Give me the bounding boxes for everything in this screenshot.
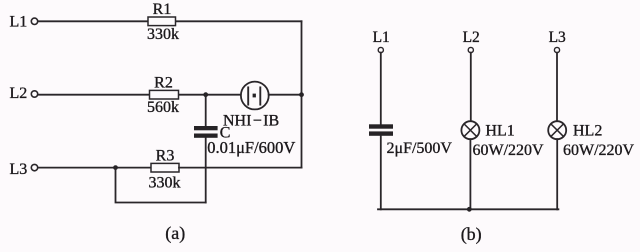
terminal L2 (a) xyxy=(31,91,37,97)
svg-text:L1: L1 xyxy=(373,29,390,46)
resistor R1 xyxy=(148,17,176,26)
svg-text:HL1: HL1 xyxy=(485,123,514,140)
terminal L3 (a) xyxy=(31,164,37,170)
wire right rail xyxy=(301,21,303,167)
wire L3 branch upper xyxy=(556,53,558,122)
svg-text:330k: 330k xyxy=(147,26,179,43)
wire L1 row xyxy=(38,20,302,22)
svg-text:0.01μF/600V: 0.01μF/600V xyxy=(207,138,295,157)
wire R3 to rail xyxy=(179,167,302,169)
lamp HL2 xyxy=(548,121,566,139)
svg-text:L1: L1 xyxy=(10,14,28,31)
wire L1 branch upper xyxy=(380,53,382,125)
terminal L1 (a) xyxy=(31,18,37,24)
wire bottom bus xyxy=(378,208,558,210)
wire L3 branch lower xyxy=(556,139,558,209)
terminal L3 (b) xyxy=(554,47,559,52)
svg-text:L3: L3 xyxy=(549,29,566,46)
svg-text:(a): (a) xyxy=(165,223,185,244)
node junction dot on right rail xyxy=(299,92,304,97)
terminal L2 (b) xyxy=(468,47,473,52)
svg-text:(b): (b) xyxy=(461,224,482,245)
node junction dot on bus xyxy=(467,207,472,212)
svg-text:R2: R2 xyxy=(154,74,173,91)
terminal L1 (b) xyxy=(378,47,383,52)
wire bypass loop xyxy=(116,168,206,203)
wire lamp right to rail xyxy=(269,94,302,96)
capacitor C plates xyxy=(194,126,218,138)
svg-text:L2: L2 xyxy=(10,85,28,102)
node junction dot at R2 / capacitor branch xyxy=(203,92,208,97)
wire capacitor branch upper xyxy=(205,95,207,126)
wire L2 branch lower xyxy=(469,139,471,209)
svg-text:60W/220V: 60W/220V xyxy=(473,142,545,159)
neon lamp U1 NHI-1B xyxy=(241,82,269,110)
svg-text:L3: L3 xyxy=(10,161,28,178)
wire L2 branch upper xyxy=(470,53,472,122)
wire capacitor branch lower xyxy=(205,138,207,203)
svg-text:L2: L2 xyxy=(463,29,480,46)
svg-text:2μF/500V: 2μF/500V xyxy=(387,140,453,157)
svg-text:NHI − IB: NHI − IB xyxy=(223,113,279,130)
svg-text:330k: 330k xyxy=(149,174,181,191)
resistor R3 xyxy=(151,163,179,172)
svg-text:560k: 560k xyxy=(147,99,179,116)
wire L1 branch lower xyxy=(380,136,382,210)
resistor R2 xyxy=(150,90,179,99)
lamp HL1 xyxy=(461,121,479,139)
capacitor C2 plates xyxy=(369,124,393,135)
node junction dot on L3 row xyxy=(113,165,118,170)
svg-text:60W/220V: 60W/220V xyxy=(563,142,635,159)
wire L2 row left xyxy=(38,94,241,96)
svg-text:R1: R1 xyxy=(153,1,172,18)
svg-text:HL2: HL2 xyxy=(573,123,602,140)
wire L3 row left xyxy=(38,167,151,169)
svg-text:R3: R3 xyxy=(156,148,175,165)
